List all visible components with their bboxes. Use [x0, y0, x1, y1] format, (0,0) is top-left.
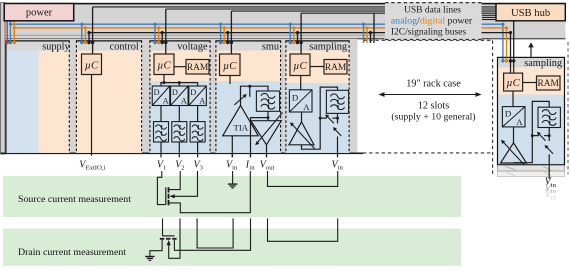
pins into card: [502, 58, 504, 61]
uC stub: [229, 76, 231, 85]
svg-text:D: D: [292, 92, 298, 102]
output wires V1 V2 V3: [160, 142, 162, 153]
svg-text:(supply + 10 general): (supply + 10 general): [391, 112, 475, 123]
wire TIA output to filter: [241, 86, 269, 105]
digital power bus (orange): [14, 28, 506, 61]
svg-text:19" rack case: 19" rack case: [406, 78, 461, 89]
wire uC to ADC: [512, 91, 514, 107]
USB hub: [496, 4, 565, 21]
uC U4 (sampling): [290, 54, 310, 76]
svg-text:ExtIO,i: ExtIO,i: [86, 165, 106, 172]
voltage card frame: [150, 40, 211, 152]
wire USB into uC: [300, 43, 302, 55]
DAC D/A 3: [189, 86, 207, 106]
orange bus taps: [14, 21, 367, 43]
uC U1 (control): [82, 54, 102, 75]
RAM (voltage): [186, 60, 209, 75]
svg-text:A: A: [199, 97, 205, 106]
I2C/signaling bus (black): [89, 33, 511, 61]
svg-text:A: A: [516, 117, 523, 127]
svg-text:USB hub: USB hub: [511, 8, 550, 19]
RAM (right sampling): [537, 76, 561, 90]
svg-text:analog/digital power: analog/digital power: [391, 16, 473, 27]
supply card frame: [6, 40, 70, 152]
svg-text:in: in: [232, 165, 238, 172]
TIA input legs: [231, 136, 233, 158]
wire ADC to amp: [513, 127, 515, 143]
wire uC-RAM: [174, 66, 186, 68]
power red feed to supply card: [6, 21, 8, 43]
sampling card frame: [286, 40, 350, 152]
svg-text:in: in: [338, 165, 344, 172]
svg-text:2: 2: [181, 165, 184, 172]
wire V1 to gate: [157, 171, 165, 205]
ADC D/A (right sampling): [502, 107, 525, 127]
card ghost strips (stacked cards behind): [498, 165, 565, 171]
uC U5 (right sampling): [504, 73, 523, 91]
variable gain amp (sampling): [289, 122, 314, 145]
switch S5 (input): [548, 136, 550, 141]
rack case body behind cards: [0, 39, 358, 154]
rack case left wall: [1, 3, 5, 154]
wires DAC to filters: [160, 106, 162, 122]
svg-text:RAM: RAM: [538, 79, 560, 89]
svg-text:1: 1: [163, 165, 166, 172]
wire filter bottom: [548, 128, 550, 136]
svg-text:µC: µC: [506, 77, 520, 89]
svg-text:D: D: [190, 88, 196, 97]
DAC D/A 1: [152, 86, 170, 106]
band background: [3, 229, 461, 266]
filter (sampling): [326, 90, 348, 113]
wire: uC to external IO: [91, 75, 93, 156]
wire USB into uC: [230, 43, 232, 55]
amp input routing: [302, 87, 338, 149]
variable gain amp (right sampling): [501, 143, 527, 163]
USB drop wires from ribbon to cards: [93, 7, 514, 61]
V_in wire down through stack: [548, 154, 550, 179]
DAC D/A 2: [171, 86, 189, 106]
filter F1: [154, 122, 169, 142]
svg-text:A: A: [181, 97, 187, 106]
svg-text:12 slots: 12 slots: [418, 100, 449, 111]
svg-text:µC: µC: [223, 60, 237, 72]
control card frame: [76, 40, 142, 152]
bracket V_out to sampling V_in: [268, 218, 338, 241]
svg-text:A: A: [303, 102, 310, 112]
analog power bus (blue): [10, 24, 503, 61]
filter F2: [172, 122, 187, 142]
svg-text:D: D: [154, 88, 160, 97]
svg-text:D: D: [505, 108, 511, 118]
svg-text:RAM: RAM: [325, 63, 347, 73]
svg-text:µC: µC: [293, 60, 307, 72]
svg-text:voltage: voltage: [177, 41, 208, 52]
svg-text:D: D: [172, 88, 178, 97]
svg-text:smu: smu: [262, 41, 279, 52]
wire uC-RAM: [523, 82, 537, 84]
transistor M1 channel segments: [168, 187, 170, 205]
transistor M2 gate bar: [163, 235, 175, 237]
svg-text:in: in: [249, 165, 255, 172]
wire filter bottom: [337, 113, 339, 118]
ribbon fan into hub: [482, 14, 496, 16]
svg-text:µC: µC: [85, 60, 99, 72]
band background: [3, 176, 461, 217]
switch S3 (input): [337, 118, 339, 123]
wire V1 to gate: [162, 218, 164, 236]
legend box: [385, 2, 482, 40]
svg-text:supply: supply: [42, 41, 70, 52]
switch S2 (filter bypass): [320, 117, 327, 119]
blue bus taps: [10, 21, 363, 43]
svg-text:I2C/signaling buses: I2C/signaling buses: [391, 28, 467, 38]
V_out wire: [266, 145, 268, 158]
switch S1 (smu): [235, 95, 246, 105]
svg-text:A: A: [163, 97, 169, 106]
transistor M1 gate bar: [165, 187, 167, 204]
transistor M2 channel segments: [160, 238, 177, 240]
wire uC-RAM: [310, 66, 324, 68]
wire: USB into uC: [92, 43, 94, 55]
drain wire to ground: [150, 240, 162, 257]
ground: [145, 257, 154, 261]
sampling card (stack front) frame: [498, 57, 565, 164]
svg-text:power: power: [26, 8, 53, 19]
V_in to ground: [232, 171, 234, 184]
wire uC to ADC: [300, 76, 302, 90]
svg-text:control: control: [110, 41, 139, 52]
card connector pins overlay: [7, 40, 297, 42]
filter F3: [190, 122, 205, 142]
bracket V3 to V_in: [197, 218, 233, 248]
source wire to I_in: [169, 171, 251, 213]
ground: [228, 184, 237, 188]
bulk wire with arrow to V3: [173, 171, 198, 196]
source wire to I_in: [174, 218, 250, 250]
switch S4 (filter bypass): [532, 135, 539, 137]
rack case dashed outline (empty slots region): [363, 39, 493, 41]
svg-text:µC: µC: [157, 60, 171, 72]
svg-text:sampling: sampling: [524, 58, 562, 69]
smu card frame: [216, 40, 282, 152]
svg-text:Drain current measurement: Drain current measurement: [18, 247, 126, 258]
svg-text:Source current measurement: Source current measurement: [18, 194, 131, 205]
svg-text:RAM: RAM: [187, 63, 209, 73]
svg-text:USB data lines: USB data lines: [404, 5, 461, 15]
power box: [4, 4, 74, 21]
uC U3 (smu): [220, 54, 241, 76]
drain wire to V2: [169, 171, 181, 190]
USB data ribbon lines: [93, 6, 496, 8]
rack case bottom rail: [1, 152, 364, 154]
node labels: [79, 160, 343, 172]
I2C bus taps: [89, 33, 371, 43]
ADC D/A (sampling): [289, 90, 312, 112]
svg-text:in: in: [551, 194, 557, 201]
svg-text:3: 3: [200, 165, 204, 172]
svg-text:sampling: sampling: [309, 41, 347, 52]
filter (right sampling): [538, 107, 560, 127]
svg-text:TIA: TIA: [233, 123, 248, 133]
rack case top bar: [0, 3, 566, 39]
plug-in arrow: [530, 47, 532, 57]
amp input routing: [514, 101, 550, 162]
wire ADC to amp: [301, 112, 303, 122]
variable gain amp (smu): [251, 121, 281, 145]
filter (smu): [256, 91, 279, 111]
V_in labels (stacked): [545, 177, 557, 189]
wires into uC: [165, 43, 167, 55]
wire uC to DAC distribution: [163, 75, 165, 83]
uC U2 (voltage): [154, 54, 174, 75]
terminal stubs below rack: [161, 154, 338, 158]
TIA amplifier: [223, 105, 259, 135]
bulk loop from V2 with arrow: [169, 218, 180, 258]
RAM (sampling): [324, 60, 347, 75]
wire filter to amp: [267, 111, 269, 120]
V_out to sampling V_in bracket: [268, 171, 338, 186]
svg-text:out: out: [266, 165, 275, 172]
